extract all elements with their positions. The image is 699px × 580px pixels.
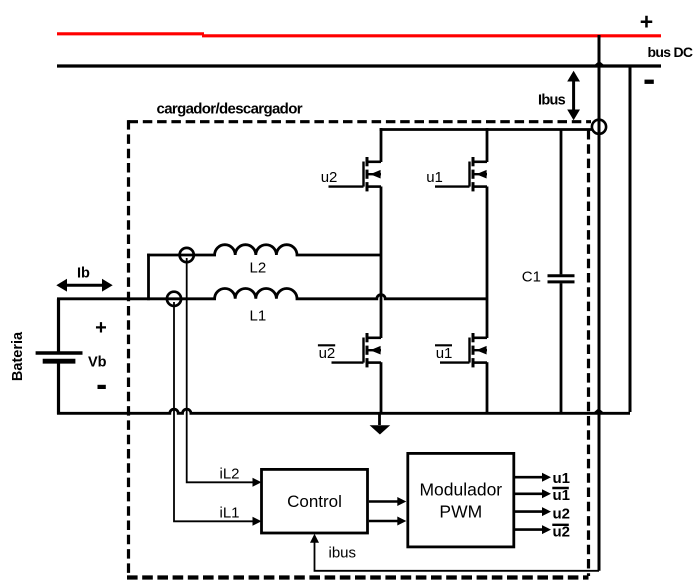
svg-text:Bateria: Bateria <box>10 331 26 381</box>
Modulador output u1 <box>514 476 543 479</box>
wire: battery top to L1 and right leg, with inductor L1 humps and hop over left leg <box>57 288 487 298</box>
hop where ibus vertical crosses bottom rail <box>594 408 603 412</box>
minus label of bus DC <box>645 80 654 84</box>
ground <box>378 413 381 425</box>
bridge top rail <box>380 128 593 131</box>
wire: Control to Modulador arrow 2 <box>369 520 398 523</box>
Ib double-headed arrow <box>64 284 105 287</box>
right leg wire segments <box>486 128 489 162</box>
svg-text:u2: u2 <box>553 506 571 523</box>
svg-text:ibus: ibus <box>329 545 357 562</box>
transistor u2 (MOSFET) <box>364 157 382 191</box>
svg-text:+: + <box>95 317 107 339</box>
svg-text:u2: u2 <box>321 169 338 186</box>
svg-text:iL2: iL2 <box>220 466 240 483</box>
svg-text:+: + <box>640 9 653 35</box>
bus DC positive red rail <box>57 32 204 35</box>
svg-text:bus DC: bus DC <box>648 44 693 60</box>
transistor u1 (MOSFET) <box>470 157 488 191</box>
capacitor C1 <box>560 130 563 275</box>
Modulador output u2-bar <box>514 528 543 531</box>
u1-bar gate lead <box>440 361 470 363</box>
wire: ibus vertical from red bus down to control tap <box>598 35 601 571</box>
bus DC negative black rail <box>57 64 661 67</box>
svg-text:u1: u1 <box>553 487 571 504</box>
wire: jog up from main wire to L2 branch <box>147 254 150 301</box>
wire: Control to Modulador arrow 1 <box>369 500 398 503</box>
dashed box cargador/descargador <box>129 120 592 123</box>
u1 gate lead <box>435 185 470 187</box>
Control block <box>262 469 368 533</box>
u2 gate lead <box>329 185 364 187</box>
svg-text:Vb: Vb <box>88 355 107 371</box>
wire: right return vertical from black bus to bottom rail <box>629 66 632 412</box>
node circle on L2 branch <box>180 248 194 262</box>
svg-text:PWM: PWM <box>439 502 482 522</box>
u2-bar gate lead <box>332 361 364 363</box>
left leg wire segments <box>380 128 383 162</box>
Modulador output u2 <box>514 510 543 513</box>
bottom rail with hops over sense lines <box>57 409 630 413</box>
battery minus label <box>98 385 106 389</box>
Ibus double-headed arrow <box>572 79 575 112</box>
svg-text:Modulador: Modulador <box>419 480 502 500</box>
svg-text:Ib: Ib <box>77 266 90 282</box>
svg-text:Ibus: Ibus <box>538 93 566 109</box>
wire: iL2 sense line down from node to Control <box>187 258 254 482</box>
battery Vb <box>57 299 60 352</box>
Modulador PWM block <box>408 453 514 547</box>
svg-text:u2: u2 <box>319 345 336 362</box>
svg-text:L2: L2 <box>250 260 267 277</box>
transistor u2-bar (MOSFET) <box>364 333 382 367</box>
svg-text:cargador/descargador: cargador/descargador <box>157 101 303 118</box>
wire: ibus feedback into Control <box>315 537 600 571</box>
node circle on L1 branch <box>167 292 181 306</box>
Modulador output u1-bar <box>514 492 543 495</box>
hop where ibus vertical crosses black bus <box>594 61 604 65</box>
svg-text:u2: u2 <box>553 524 571 541</box>
transistor u1-bar (MOSFET) <box>470 333 488 367</box>
svg-text:C1: C1 <box>522 269 541 286</box>
node circle at bus tap <box>592 120 606 134</box>
svg-text:u1: u1 <box>426 169 443 186</box>
wire: iL1 sense line down from node to Control <box>174 302 254 521</box>
svg-text:u1: u1 <box>436 345 453 362</box>
svg-text:L1: L1 <box>250 308 267 325</box>
wire: L2 branch with inductor L2 humps to left leg <box>147 245 381 255</box>
svg-text:Control: Control <box>287 492 342 511</box>
svg-text:iL1: iL1 <box>220 505 240 522</box>
svg-text:u1: u1 <box>553 470 571 487</box>
